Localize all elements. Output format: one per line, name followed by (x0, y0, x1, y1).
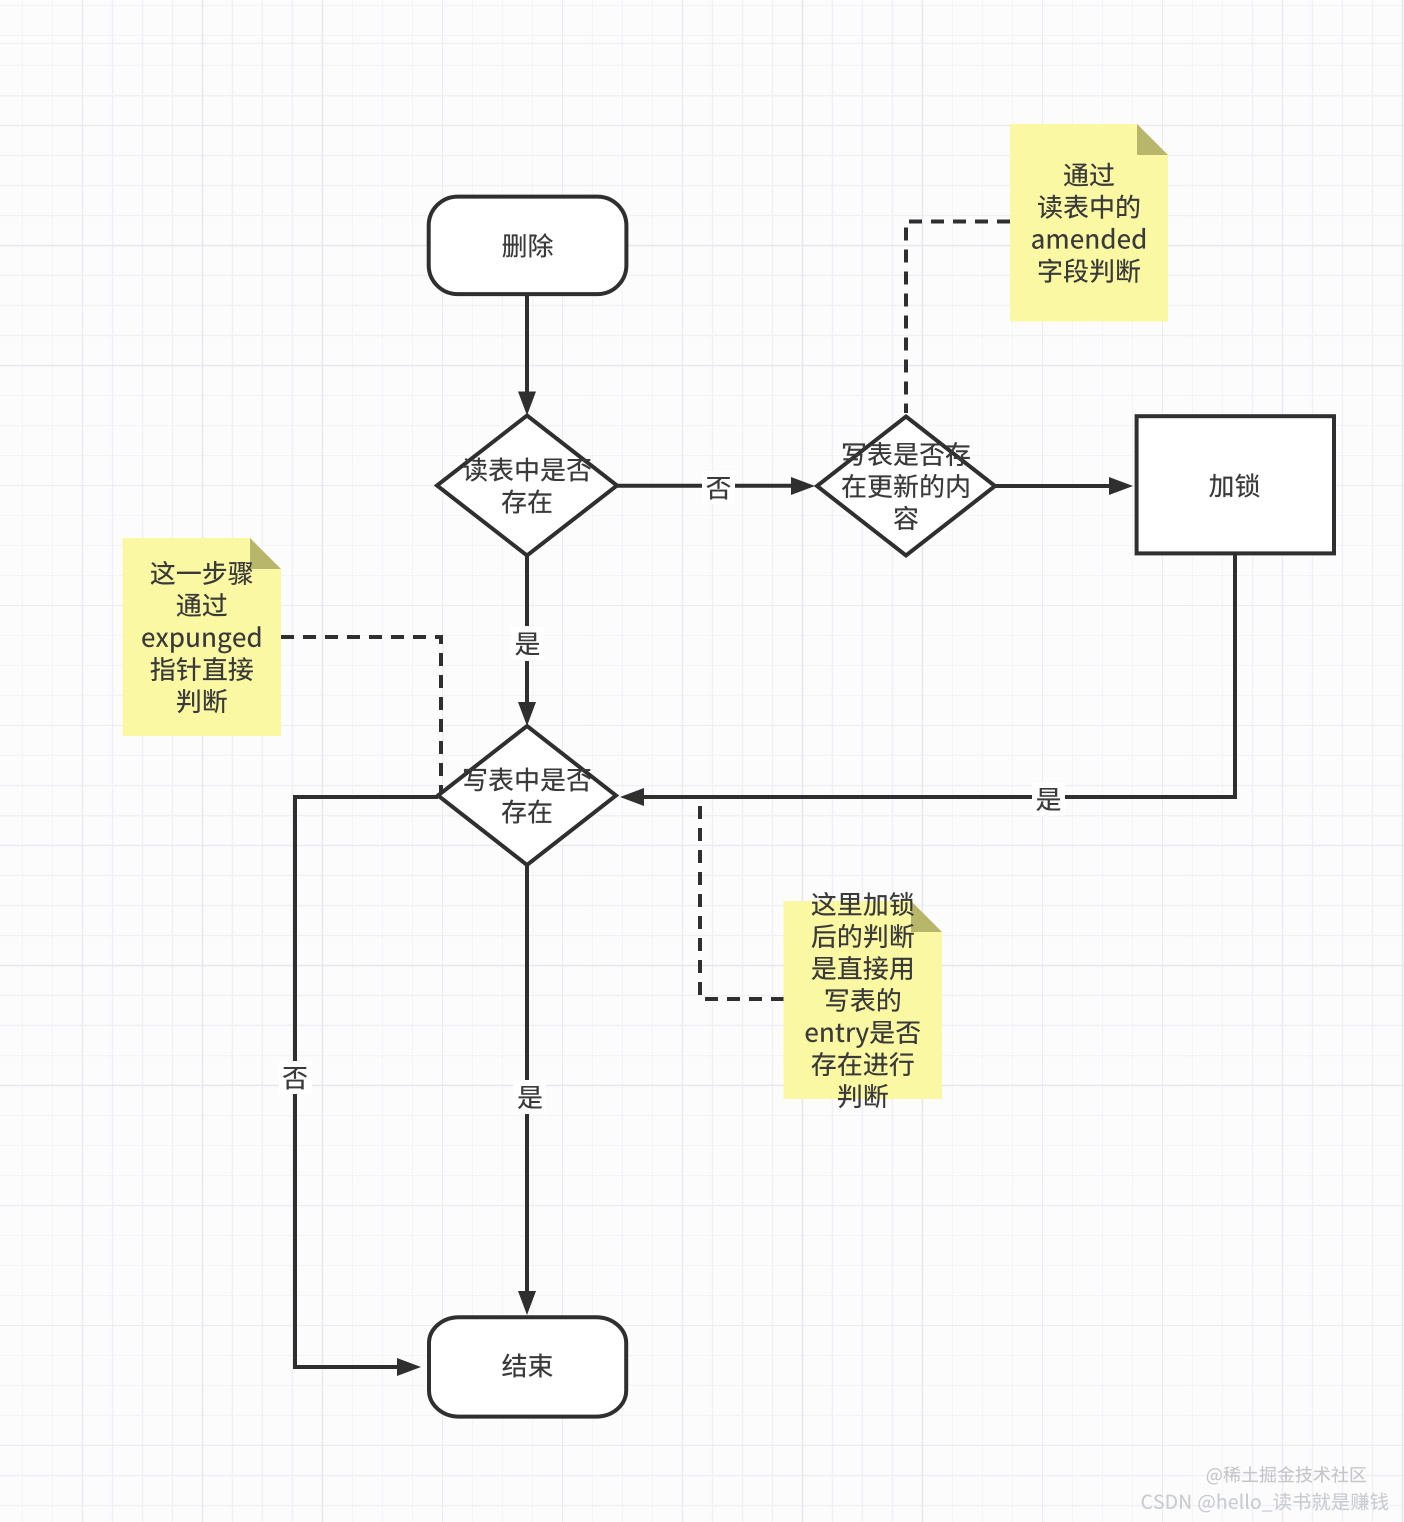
decision diamond2 写表是否存在更新的内容 (817, 417, 995, 556)
wire 加锁 to diamond3 (yes) (644, 555, 1235, 797)
sticky note3 这里加锁后的判断 (784, 901, 943, 1099)
dashed link note1 to diamond2 (906, 222, 1010, 414)
wire diamond1 to diamond2 (no branch) (617, 484, 793, 488)
label 是 (511, 627, 544, 660)
end node 结束 (429, 1317, 626, 1416)
sticky note2 这一步骤通过expunged指针直接判断 (123, 538, 282, 736)
label 否 (279, 1061, 312, 1094)
process box 加锁 (1137, 416, 1334, 553)
label 是 (513, 1081, 546, 1114)
wire diamond1 to diamond3 (yes) (525, 556, 529, 627)
wire diamond3 to 结束 (yes) (525, 865, 529, 1080)
decision diamond1 读表中是否存在 (437, 416, 617, 556)
label 是 (1032, 783, 1065, 816)
dashed link note2 to diamond3 (281, 637, 441, 794)
decision diamond3 写表中是否存在 (438, 726, 616, 865)
wire diamond2 to 加锁 (995, 484, 1110, 488)
watermark 稀土掘金 (1207, 1466, 1366, 1485)
wire 删除 to diamond1 (525, 296, 529, 393)
label 否 (702, 471, 735, 504)
start node 删除 (429, 197, 627, 295)
wire diamond3 to 结束 (no) (295, 797, 438, 1367)
sticky note1 通过读表中的amended字段判断 (1010, 124, 1168, 322)
dashed link note3 to yes-wire (700, 799, 784, 999)
watermark CSDN (1142, 1493, 1389, 1513)
